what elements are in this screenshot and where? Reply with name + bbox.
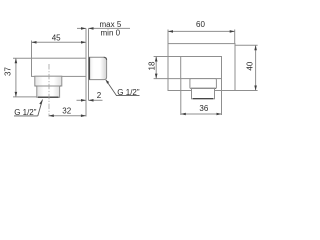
svg-text:45: 45 [52,33,61,42]
svg-text:36: 36 [199,104,208,113]
svg-text:60: 60 [196,20,205,29]
svg-text:37: 37 [4,67,13,76]
svg-text:40: 40 [246,61,255,70]
svg-text:min 0: min 0 [101,28,121,37]
svg-text:2: 2 [97,91,102,100]
svg-text:32: 32 [62,106,71,115]
svg-text:G 1/2”: G 1/2” [117,88,140,97]
svg-text:18: 18 [148,61,157,70]
